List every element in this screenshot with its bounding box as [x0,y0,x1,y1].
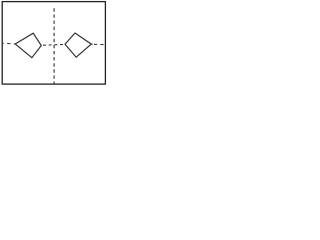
enclosure box [2,2,105,85]
left kite [15,33,41,58]
horizontal dashed axis, right segment [94,43,105,45]
horizontal dashed axis, left segment [2,42,15,45]
horizontal dashed axis, right segment tail [92,43,93,45]
right kite [65,33,91,57]
vertical dashed mirror line [53,8,55,84]
horizontal dashed axis, middle segment [43,43,65,46]
